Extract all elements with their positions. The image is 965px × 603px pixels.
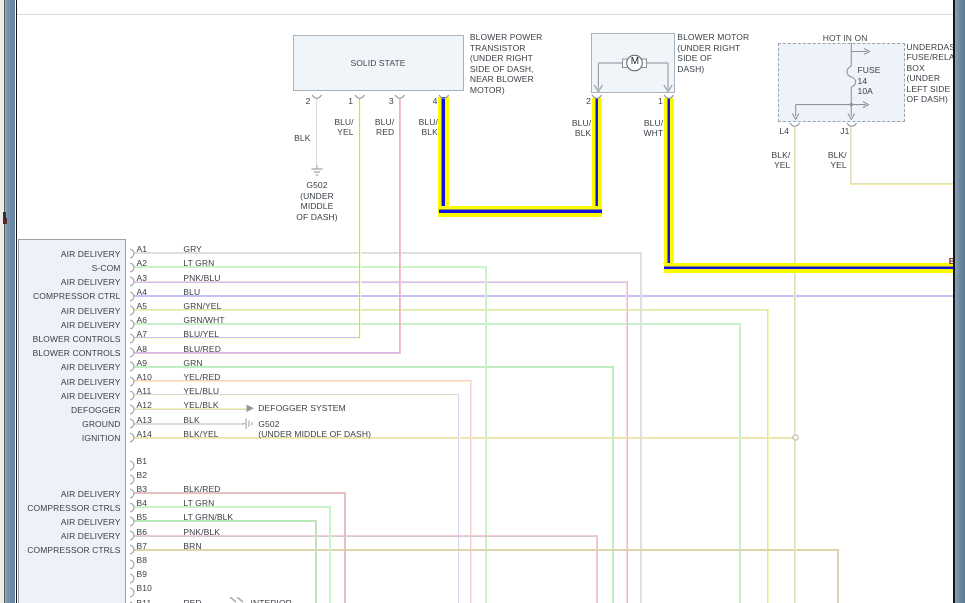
label AIR DELIVERY for B5 xyxy=(61,517,121,528)
wire A1 GRY wire vertical xyxy=(640,252,642,603)
pin label A5 xyxy=(137,301,148,312)
pin B5 connector arc xyxy=(129,516,135,527)
wire A13 BLK wire xyxy=(134,423,245,425)
U1 pin 4 arc xyxy=(438,94,450,102)
pin A2 connector arc xyxy=(129,262,135,273)
value label BLK/RED (B3) xyxy=(183,484,220,495)
wire B4 LT GRN wire vertical xyxy=(329,506,331,603)
note blower power transistor xyxy=(470,32,543,95)
window chrome: left borders xyxy=(0,0,4,603)
pin label B6 xyxy=(137,527,148,538)
value label BLU/RED (A8) xyxy=(183,344,221,355)
label AIR DELIVERY for A10 xyxy=(61,377,121,388)
label SOLID STATE xyxy=(293,58,463,69)
value label BLU/WHT (motor pin1) xyxy=(644,118,664,139)
pin B2 connector arc xyxy=(129,474,135,485)
value label BLU/BLK (motor pin2) xyxy=(572,118,591,139)
label AIR DELIVERY for A5 xyxy=(61,306,121,317)
pin B10 connector arc xyxy=(129,587,135,598)
wire L4 BLK/YEL wire xyxy=(794,127,796,603)
pin A3 connector arc xyxy=(129,276,135,287)
value label BLU/RED (U1 pin3) xyxy=(375,117,394,138)
motor M1 internal wiring xyxy=(590,50,676,96)
U1 pin 1 arc xyxy=(354,94,366,102)
value label YEL/RED (A10) xyxy=(183,372,220,383)
pin label A2 xyxy=(137,258,148,269)
U1 pin number 2 xyxy=(306,96,311,107)
value label BLU/YEL (A7) xyxy=(183,329,219,340)
fuse pin label J1 xyxy=(840,126,849,137)
node INTERIOR (B11) xyxy=(251,598,292,603)
wire A7 BLU/YEL wire xyxy=(134,337,361,339)
label GROUND for A13 xyxy=(82,419,120,430)
pin A11 connector arc xyxy=(129,390,135,401)
ground G502 symbol xyxy=(309,165,325,178)
window chrome: top divider line xyxy=(17,14,953,15)
wire J1 BLK/YEL wire vertical xyxy=(850,127,852,185)
wire B7 BRN wire xyxy=(134,549,838,551)
pin label A6 xyxy=(137,315,148,326)
connector panel box (A/C control unit) xyxy=(18,239,126,603)
wire A3 PNK/BLU wire xyxy=(134,281,628,283)
label BLOWER CONTROLS for A8 xyxy=(33,348,121,359)
wire A3 PNK/BLU wire vertical xyxy=(626,281,628,603)
pin label A11 xyxy=(137,386,152,397)
clipped label B at right edge xyxy=(949,256,955,267)
value label BLU/BLK (U1 pin4) xyxy=(419,117,438,138)
wire J1 BLK/YEL wire horizontal to edge xyxy=(850,183,954,185)
node DEFOGGER SYSTEM text xyxy=(258,403,345,414)
wire A6 GRN/WHT wire xyxy=(134,323,741,325)
pin label A9 xyxy=(137,358,148,369)
motor pin 2 arc xyxy=(591,94,603,102)
fuse F14 value label xyxy=(858,65,881,97)
U1 pin 3 arc xyxy=(394,94,406,102)
label AIR DELIVERY for A6 xyxy=(61,320,121,331)
node G502 (A13) text xyxy=(258,419,279,430)
pin A12 connector arc xyxy=(129,404,135,415)
pin label B11 xyxy=(137,598,152,603)
value label BLK/YEL (L4) xyxy=(771,150,790,171)
pin label B2 xyxy=(137,470,148,481)
ground G502 (A13) symbol xyxy=(242,417,255,431)
value label YEL/BLK (A12) xyxy=(183,400,218,411)
pin label B9 xyxy=(137,569,148,580)
note underdash fuse box xyxy=(907,42,962,105)
wire A9 GRN wire vertical xyxy=(612,366,614,603)
motor pin number 1 xyxy=(658,96,663,107)
value label YEL/BLU (A11) xyxy=(183,386,219,397)
wire A1 GRY wire xyxy=(134,252,642,254)
wire B6 PNK/BLK wire xyxy=(134,535,597,537)
wire U1 pin2 BLK wire to G502 xyxy=(316,99,318,167)
pin B11 connector arc xyxy=(129,601,135,603)
value label GRN/WHT (A6) xyxy=(183,315,224,326)
wire A14 BLK/YEL wire xyxy=(134,437,793,439)
U1 pin number 1 xyxy=(348,96,353,107)
motor M letter xyxy=(629,57,641,68)
label AIR DELIVERY for A1 xyxy=(61,249,121,260)
label DEFOGGER for A12 xyxy=(71,405,120,416)
wire A10 YEL/RED wire vertical xyxy=(470,380,472,603)
BLU/BLK traced wire: up-leg to motor pin2 xyxy=(592,98,603,206)
wire A2 LT GRN wire vertical xyxy=(485,266,487,603)
pin label A7 xyxy=(137,329,148,340)
pin A7 connector arc xyxy=(129,333,135,344)
motor M1 symbol xyxy=(620,52,650,74)
pin label B1 xyxy=(137,456,148,467)
pin A10 connector arc xyxy=(129,376,135,387)
BLU/WHT traced wire: run to right edge xyxy=(664,263,954,274)
value label BLK (U1 pin2) xyxy=(294,133,310,144)
node G502 location text xyxy=(258,429,371,440)
window chrome: small icon mark on left border xyxy=(3,212,6,218)
pin B3 connector arc xyxy=(129,488,135,499)
pin B4 connector arc xyxy=(129,502,135,513)
node DEFOGGER SYSTEM arrow xyxy=(246,404,256,413)
wire A8 BLU/RED wire up to U1 pin 3 xyxy=(399,99,401,353)
pin label B7 xyxy=(137,541,148,552)
pin B8 connector arc xyxy=(129,559,135,570)
node junction A14-L4 connector circle xyxy=(791,433,800,442)
value label BRN (B7) xyxy=(183,541,201,552)
value label BLK/YEL (A14) xyxy=(183,429,218,440)
motor pin 1 arc xyxy=(663,94,675,102)
label COMPRESSOR CTRL for A4 xyxy=(33,291,120,302)
pin B7 connector arc xyxy=(129,544,135,555)
value label BLK/YEL (J1) xyxy=(828,150,847,171)
label IGNITION for A14 xyxy=(82,433,121,444)
label AIR DELIVERY for A11 xyxy=(61,391,121,402)
pin A9 connector arc xyxy=(129,361,135,372)
value label LT GRN (B4) xyxy=(183,498,214,509)
pin label A1 xyxy=(137,244,148,255)
fuse box internal wiring xyxy=(790,42,880,122)
wire A5 GRN/YEL wire vertical xyxy=(767,309,769,603)
wire B5 LT GRN/BLK wire vertical xyxy=(315,520,317,603)
wire B3 BLK/RED wire vertical xyxy=(344,492,346,603)
motor pin number 2 xyxy=(586,96,591,107)
value label LT GRN/BLK (B5) xyxy=(183,512,233,523)
pin B9 connector arc xyxy=(129,573,135,584)
pin label A4 xyxy=(137,287,148,298)
value label PNK/BLU (A3) xyxy=(183,273,220,284)
pin A1 connector arc xyxy=(129,248,135,259)
wire B4 LT GRN wire xyxy=(134,506,331,508)
label AIR DELIVERY for B6 xyxy=(61,531,121,542)
wire A2 LT GRN wire xyxy=(134,266,487,268)
pin label B3 xyxy=(137,484,148,495)
pin label A8 xyxy=(137,344,148,355)
pin label A10 xyxy=(137,372,152,383)
pin A14 connector arc xyxy=(129,432,135,443)
pin A5 connector arc xyxy=(129,305,135,316)
pin label A12 xyxy=(137,400,152,411)
BLU/WHT traced wire: motor pin1 down-leg xyxy=(664,98,675,268)
value label GRN (A9) xyxy=(183,358,202,369)
label S-COM for A2 xyxy=(92,263,121,274)
fuse pin J1 arc xyxy=(846,122,858,130)
pin label A3 xyxy=(137,273,148,284)
value label BLU/YEL (U1 pin1) xyxy=(334,117,353,138)
pin label B4 xyxy=(137,498,148,509)
wire A11 YEL/BLU wire vertical xyxy=(458,394,460,603)
HOT IN ON text xyxy=(823,33,868,44)
B11 RED interior arrows xyxy=(229,597,249,603)
op-amp U1 : SOLID STATE blower power transistor box xyxy=(293,35,464,91)
pin A6 connector arc xyxy=(129,319,135,330)
wire B6 PNK/BLK wire vertical xyxy=(596,535,598,603)
label AIR DELIVERY for B3 xyxy=(61,489,121,500)
label BLOWER CONTROLS for A7 xyxy=(33,334,121,345)
U1 pin number 4 xyxy=(433,96,438,107)
wire A8 BLU/RED wire xyxy=(134,352,402,354)
value label BLK (A13) xyxy=(183,415,199,426)
value label PNK/BLK (B6) xyxy=(183,527,220,538)
wire A4 BLU wire xyxy=(134,295,954,297)
wire A7 BLU/YEL wire up to U1 pin 1 xyxy=(359,99,361,338)
label AIR DELIVERY for A3 xyxy=(61,277,121,288)
value label BLU (A4) xyxy=(183,287,200,298)
wire A10 YEL/RED wire xyxy=(134,380,471,382)
pin label A13 xyxy=(137,415,152,426)
U1 pin number 3 xyxy=(389,96,394,107)
pin label A14 xyxy=(137,429,152,440)
pin B1 connector arc xyxy=(129,460,135,471)
wire A12 YEL/BLK wire xyxy=(134,408,247,410)
wire B3 BLK/RED wire xyxy=(134,492,345,494)
wire B5 LT GRN/BLK wire xyxy=(134,520,317,522)
BLU/BLK traced wire: U1 pin4 down-leg xyxy=(438,97,449,217)
pin A8 connector arc xyxy=(129,347,135,358)
underdash fuse/relay box (dashed) xyxy=(778,43,905,123)
U1 pin 2 arc xyxy=(311,94,323,102)
pin label B8 xyxy=(137,555,148,566)
label AIR DELIVERY for A9 xyxy=(61,362,121,373)
label COMPRESSOR CTRLS for B4 xyxy=(27,503,120,514)
blower motor box M1 xyxy=(591,33,676,93)
label COMPRESSOR CTRLS for B7 xyxy=(27,545,120,556)
value label GRN/YEL (A5) xyxy=(183,301,221,312)
wire A5 GRN/YEL wire xyxy=(134,309,769,311)
pin B6 connector arc xyxy=(129,530,135,541)
window chrome: right borders xyxy=(953,0,954,603)
wire A9 GRN wire xyxy=(134,366,614,368)
node G502 text xyxy=(282,180,352,222)
fuse pin L4 arc xyxy=(789,122,801,130)
pin A13 connector arc xyxy=(129,418,135,429)
wire B7 BRN wire vertical xyxy=(837,549,839,603)
wire A6 GRN/WHT wire vertical xyxy=(739,323,741,603)
BLU/BLK traced wire: bottom run xyxy=(439,206,603,217)
pin A4 connector arc xyxy=(129,291,135,302)
pin label B10 xyxy=(137,583,152,594)
fuse pin label L4 xyxy=(779,126,789,137)
value label GRY (A1) xyxy=(183,244,202,255)
pin label B5 xyxy=(137,512,148,523)
wire A11 YEL/BLU wire xyxy=(134,394,460,396)
value label RED (B11) xyxy=(183,598,201,603)
note blower motor xyxy=(677,32,749,74)
value label LT GRN (A2) xyxy=(183,258,214,269)
